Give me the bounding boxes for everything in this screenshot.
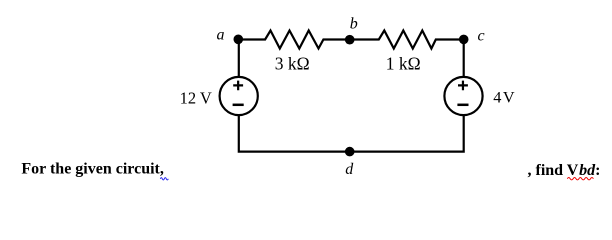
V2 minus sign	[457, 104, 468, 107]
wire a down to 12V source top	[238, 40, 240, 78]
node b dot	[345, 35, 355, 45]
voltage source V2 4V circle	[444, 77, 482, 115]
svg-text:1 kΩ: 1 kΩ	[386, 54, 421, 74]
svg-text:12 V: 12 V	[180, 88, 212, 107]
svg-text:d: d	[345, 161, 354, 178]
blue spellcheck squiggle after comma	[160, 178, 168, 180]
svg-text:c: c	[478, 27, 485, 44]
wire bottom U: 12V source bottom, bottom rail, up to 4V source bottom	[239, 116, 464, 152]
V1 minus sign	[233, 104, 244, 107]
wire c down to 4V source top	[463, 40, 465, 78]
voltage source V1 12V circle	[220, 77, 258, 115]
node a dot	[234, 35, 244, 45]
node c dot	[459, 35, 469, 45]
svg-text:a: a	[217, 27, 225, 44]
resistor R1 3kOhm with leads a-b	[239, 31, 350, 49]
svg-text:3 kΩ: 3 kΩ	[275, 54, 310, 74]
svg-text:4V: 4V	[493, 88, 515, 107]
svg-text:b: b	[350, 16, 358, 33]
svg-text:, find Vbd:: , find Vbd:	[528, 162, 601, 179]
V1 plus sign	[233, 81, 243, 91]
red spellcheck squiggle under Vbd	[567, 178, 593, 180]
V2 plus sign	[458, 81, 468, 91]
node d dot	[345, 147, 355, 157]
resistor R2 1kOhm with leads b-c	[350, 31, 464, 49]
svg-text:For the given circuit,: For the given circuit,	[21, 161, 164, 178]
